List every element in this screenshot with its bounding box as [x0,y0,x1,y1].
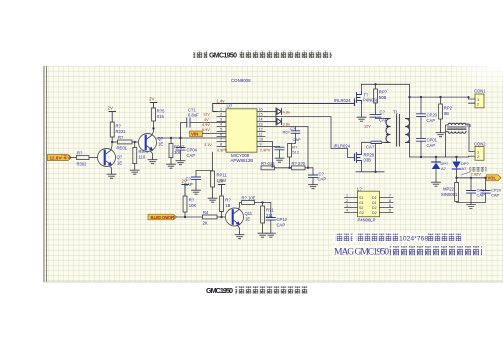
R976 ground [134,164,136,169]
capacitor CP20 [420,97,422,114]
svg-text:Q?: Q? [117,155,123,160]
svg-text:R221: R221 [116,129,127,134]
svg-text:P4N06LP: P4N06LP [358,218,376,223]
Q11 emitter + ground [237,225,240,233]
resistor RP17 hanging [170,138,172,144]
svg-text:GMC1950: GMC1950 [206,286,233,295]
wire RP50B to cap C10 [375,103,377,115]
svg-text:16: 16 [259,108,263,112]
resistor R221 [110,122,126,137]
Q11 collector wire [239,203,242,210]
transistor M1 (MOSFET upper) [355,92,379,106]
svg-text:3: 3 [346,204,348,208]
svg-text:VIN: VIN [191,132,198,137]
svg-text:Q?: Q? [158,136,164,141]
svg-text:R?: R? [225,198,231,203]
port P1 12.6V input [48,155,72,161]
RP11 ground [212,187,214,196]
svg-text:CP01: CP01 [427,138,438,143]
svg-text:1E: 1E [245,217,250,222]
svg-text:CAP: CAP [293,137,302,142]
resistor R302 [77,151,90,167]
capacitor C6 [312,168,314,175]
svg-text:2V: 2V [108,106,113,111]
svg-text:7: 7 [389,194,391,198]
resistor 10E [242,196,256,205]
top-right scan fade [445,66,503,88]
diode DP1 (blue, down) [432,157,449,171]
wire pin13 right + down x308 [265,127,308,168]
CP12 ground [270,220,272,231]
U1 left pin stubs 1-8 [217,112,226,147]
M2 drain wire to C11/T1 primary [362,142,386,151]
svg-text:3.6v: 3.6v [283,122,291,127]
svg-text:CAP: CAP [427,143,436,148]
svg-text:1: 1 [346,194,348,198]
svg-text:RP11: RP11 [217,173,228,178]
svg-text:9.9V: 9.9V [202,128,210,132]
svg-text:4.6v: 4.6v [283,110,291,115]
svg-text:C?: C? [290,126,296,131]
svg-text:D1: D1 [372,201,377,205]
svg-text:0B: 0B [444,111,449,116]
capacitor C3 (series on pin13 net) [290,126,302,144]
Q1 emitter wire + ground [109,166,112,173]
svg-text:2V: 2V [218,179,223,184]
resistor RP50B [375,84,377,89]
svg-text:D2: D2 [372,206,377,210]
port VOL (yellow) [487,175,502,181]
svg-text:2?0: 2?0 [298,161,306,166]
svg-text:R?5: R?5 [157,109,165,114]
capacitor CP01 [420,116,422,138]
Q1 collector wire [111,142,112,150]
wire R4 to Q11 base [217,216,231,218]
svg-text:D1: D1 [372,196,377,200]
svg-text:T1: T1 [393,110,399,115]
capacitor C11 (series lower) [366,141,382,149]
svg-text:512: 512 [292,150,299,155]
svg-text:2: 2 [346,199,348,203]
connector CON1 [467,89,486,108]
node B junction [134,141,136,143]
CP04 ground [180,150,182,158]
resistor RP2 [440,97,442,104]
svg-text:D2: D2 [372,211,377,215]
wire R27 to C node [305,167,313,169]
svg-text:12V: 12V [203,113,210,117]
svg-text:R?: R? [261,161,267,166]
svg-text:14: 14 [259,118,263,122]
svg-text:R4: R4 [203,210,209,215]
svg-text:CAP: CAP [277,222,286,227]
capacitor CP20b [485,178,487,191]
svg-text:RP2: RP2 [444,106,453,111]
svg-text:R?: R? [242,196,248,201]
svg-text:2.9PV: 2.9PV [260,149,271,153]
svg-text:A7: A7 [462,166,468,171]
svg-text:3.1V: 3.1V [204,143,212,147]
transformer T1 [385,110,410,147]
R11 ground [262,223,264,231]
wire RE01 to node B / Q2 base [132,141,141,143]
wire port to R302 [71,157,77,159]
svg-text:015: 015 [268,161,276,166]
wire up from x180.5 to cap C1 row [181,123,187,139]
note line 1 (blue): chip voltage tested at 1024*768 [333,232,466,243]
svg-text:IRLR024: IRLR024 [334,144,351,149]
node C junction [184,216,186,218]
svg-text:CON1: CON1 [474,89,486,94]
svg-text:5: 5 [220,128,222,132]
U1 part number text [231,153,254,163]
bottom rail y157 [410,156,469,159]
resistor R976 [133,148,149,164]
svg-text:RE01: RE01 [117,146,128,151]
M1 source to ground [361,104,363,116]
svg-text:R0?: R0? [283,130,291,135]
svg-text:110: 110 [139,154,146,159]
wire pin10 down to snubber row [265,142,273,166]
svg-text:S2: S2 [359,206,363,210]
wire VIN to pin5 [203,133,227,135]
svg-text:RP17: RP17 [174,145,185,150]
svg-text:U?: U? [227,104,233,109]
svg-text:VOL: VOL [488,176,497,181]
svg-text:4.9V: 4.9V [202,123,210,127]
svg-text:2V: 2V [149,97,154,102]
capacitor CP04 hanging [180,138,182,148]
svg-text:2: 2 [220,113,222,117]
transistor Q2 [139,134,164,152]
svg-text:R302: R302 [77,161,88,166]
inductor T5 (horizontal double coil) [448,123,473,133]
junction on long wire (x171) [170,137,172,139]
resistor R11 hanging [262,203,264,207]
voltage test note [462,167,487,176]
resistor 10K [183,196,196,212]
svg-text:03B: 03B [364,158,372,163]
capacitor C4 + ground (pin9 net) [265,147,284,163]
RP2 ground [440,119,442,131]
wire C1 to U1 pin3 [190,122,226,124]
RP17 ground [170,158,172,163]
svg-text:CAP: CAP [318,177,327,182]
svg-text:2V: 2V [182,179,187,184]
wire node B down to R976 [134,142,136,148]
U1 right pin numbers [259,108,264,147]
svg-text:R?: R? [118,135,124,140]
svg-text:RP?: RP? [379,90,388,95]
svg-text:CON9008: CON9008 [231,78,251,83]
svg-text:1.4v: 1.4v [217,99,226,104]
svg-text:6.8uF: 6.8uF [188,113,199,118]
svg-text:1B: 1B [225,203,230,208]
power 2V above R15 [149,97,157,109]
svg-text:MP22: MP22 [443,187,455,192]
svg-text:50B: 50B [379,95,387,100]
svg-text:10K: 10K [189,203,197,208]
svg-text:CAP: CAP [491,192,500,197]
wire RP21 down to base row [221,212,223,218]
DP1 ground [435,170,437,181]
svg-text:S1: S1 [359,196,363,200]
svg-text:R?: R? [292,161,298,166]
title: 美格 GMC1950 LCD repair [193,51,332,60]
wire 10K to node C [184,212,186,217]
svg-text:2.92V: 2.92V [471,172,482,177]
svg-text:4V: 4V [204,118,209,122]
svg-text:015: 015 [157,114,165,119]
svg-text:IRLR024: IRLR024 [334,98,351,103]
tie rail ground [467,202,476,208]
voltage annotations left of pins [202,113,271,153]
U1 right pin stubs 16-9 [257,112,265,147]
svg-text:2: 2 [477,103,479,107]
CON1 feed rail [410,96,469,98]
svg-text:11: 11 [259,133,263,137]
svg-text:B.LED ON/OFF: B.LED ON/OFF [151,215,176,220]
svg-text:3: 3 [220,118,222,122]
svg-text:Q11: Q11 [245,211,253,216]
svg-text:CAP: CAP [187,153,196,158]
resistor MP22 [456,178,458,183]
sheet bottom edge [43,281,503,283]
svg-text:1: 1 [220,108,222,112]
svg-text:R?: R? [116,124,122,129]
svg-text:SIN0061: SIN0061 [441,192,458,197]
diode DP2 (blue, down) [452,157,469,171]
svg-text:12: 12 [259,128,263,132]
M2 source to bottom rail [356,144,384,172]
svg-text:2: 2 [477,155,479,159]
svg-text:MAG GMC1950: MAG GMC1950 [334,247,389,258]
svg-text:8: 8 [220,143,222,147]
svg-text:0.9PV: 0.9PV [217,149,228,153]
resistor R4 [203,210,218,225]
svg-text:6: 6 [389,204,391,208]
svg-text:G2: G2 [359,211,364,215]
capacitor C5 left of RP11 [184,171,213,195]
svg-text:13: 13 [259,123,263,127]
svg-text:12V: 12V [364,125,371,129]
node A junction [111,141,113,143]
capacitor CP15 [470,178,472,191]
svg-text:GMC1950: GMC1950 [209,53,237,60]
net label VIN (yellow) [190,131,203,137]
svg-text:6: 6 [220,133,222,137]
bottom tie rail [457,193,486,202]
svg-text:12.6V: 12.6V [50,155,63,160]
wire node A to RE01 [112,141,117,143]
long wire Q2 to U1 pin6 [157,137,226,139]
svg-text:CON2: CON2 [474,142,486,147]
svg-text:10E: 10E [248,196,256,201]
wire port to node C [177,216,203,218]
svg-text:5: 5 [389,209,391,213]
transistor M2 (MOSFET lower) [355,152,375,164]
svg-text:7: 7 [220,138,222,142]
T5 right lead to CON2 [467,124,476,152]
diode D1 at pin16 [265,108,290,125]
svg-text:4: 4 [220,123,222,127]
svg-text:R?1: R?1 [266,208,274,213]
resistor RP21 [220,196,232,212]
capacitor C10 (series) [370,110,388,123]
C6 ground [312,178,314,183]
wire 10E to caps [255,202,271,204]
Q2 emitter wire + ground [150,151,153,158]
transistor pair L1 (dual MOSFET 8-pin) [345,187,394,223]
resistor R512 [288,144,300,158]
top rail [362,83,410,85]
port P2 B.LED ON/OFF [148,214,177,220]
svg-text:8: 8 [389,199,391,203]
svg-text:4: 4 [346,209,348,213]
transistor Q11 [226,208,253,226]
capacitor CP12 [270,203,272,218]
bottom caption [206,286,309,295]
pin1 rail to MOSFET gate (14v) [213,99,355,112]
R512 to row [289,157,291,168]
vertical rail right of T1 [409,84,411,157]
sheet left double border [44,66,47,282]
svg-text:1: 1 [477,98,479,102]
wire C10 to T1 primary top [376,117,386,118]
svg-text:1E: 1E [117,161,122,166]
svg-text:CAP: CAP [427,118,436,123]
svg-text:R?: R? [189,198,195,203]
svg-text:15: 15 [259,113,263,117]
resistor RE01 [117,135,133,151]
svg-text:1024*768: 1024*768 [399,236,428,243]
svg-text:R?: R? [77,151,83,156]
power 2V (left) [108,106,116,123]
Q2 collector wire + node [152,121,154,135]
svg-text:1: 1 [477,151,479,155]
svg-text:9: 9 [260,143,262,147]
op-amp U1 (inverter controller IC body) [226,104,257,153]
svg-text:10: 10 [259,138,263,142]
T5 left lead [446,125,449,157]
wire R015 to R27 [275,167,292,169]
transistor Q1 [98,149,123,167]
svg-text:C?: C? [380,110,386,115]
power 2V above 10K [182,179,189,197]
resistor RP11 below U1 [212,152,214,171]
wire DP2 to VOL rail [457,170,487,178]
sheet background [43,66,503,282]
resistor R15 above Q2 [152,108,166,121]
svg-text:CP04: CP04 [187,148,198,153]
svg-text:P4N06L: P4N06L [363,98,379,103]
note line 2 (blue): MAG GMC1950 inverter schematic [332,245,483,258]
svg-text:2K: 2K [203,220,208,225]
connector CON2 [469,142,487,161]
svg-text:A7: A7 [441,166,447,171]
M1 drain wire to top rail [361,84,363,91]
resistor R015 (horizontal) [261,161,275,170]
wire pin15 to gate net (IRLR024 lower) [265,117,355,158]
U1 left pin numbers [220,108,222,147]
svg-text:CP20: CP20 [427,113,438,118]
svg-text:CP12: CP12 [277,217,288,222]
resistor R27 (horizontal) [292,161,306,170]
power 2V above RP21 [218,179,225,197]
svg-text:APW8812B: APW8812B [231,158,254,163]
capacitor C1 (series, horizontal) [187,108,199,128]
diode D2 at pin14 [265,119,290,127]
wire R221 to node A [111,137,113,142]
svg-text:CA?: CA? [366,145,375,150]
junction on long wire (x180.5) [179,137,181,139]
wire R302 to Q1 base [89,157,103,159]
svg-text:1E: 1E [158,142,163,147]
svg-text:G1: G1 [359,201,364,205]
